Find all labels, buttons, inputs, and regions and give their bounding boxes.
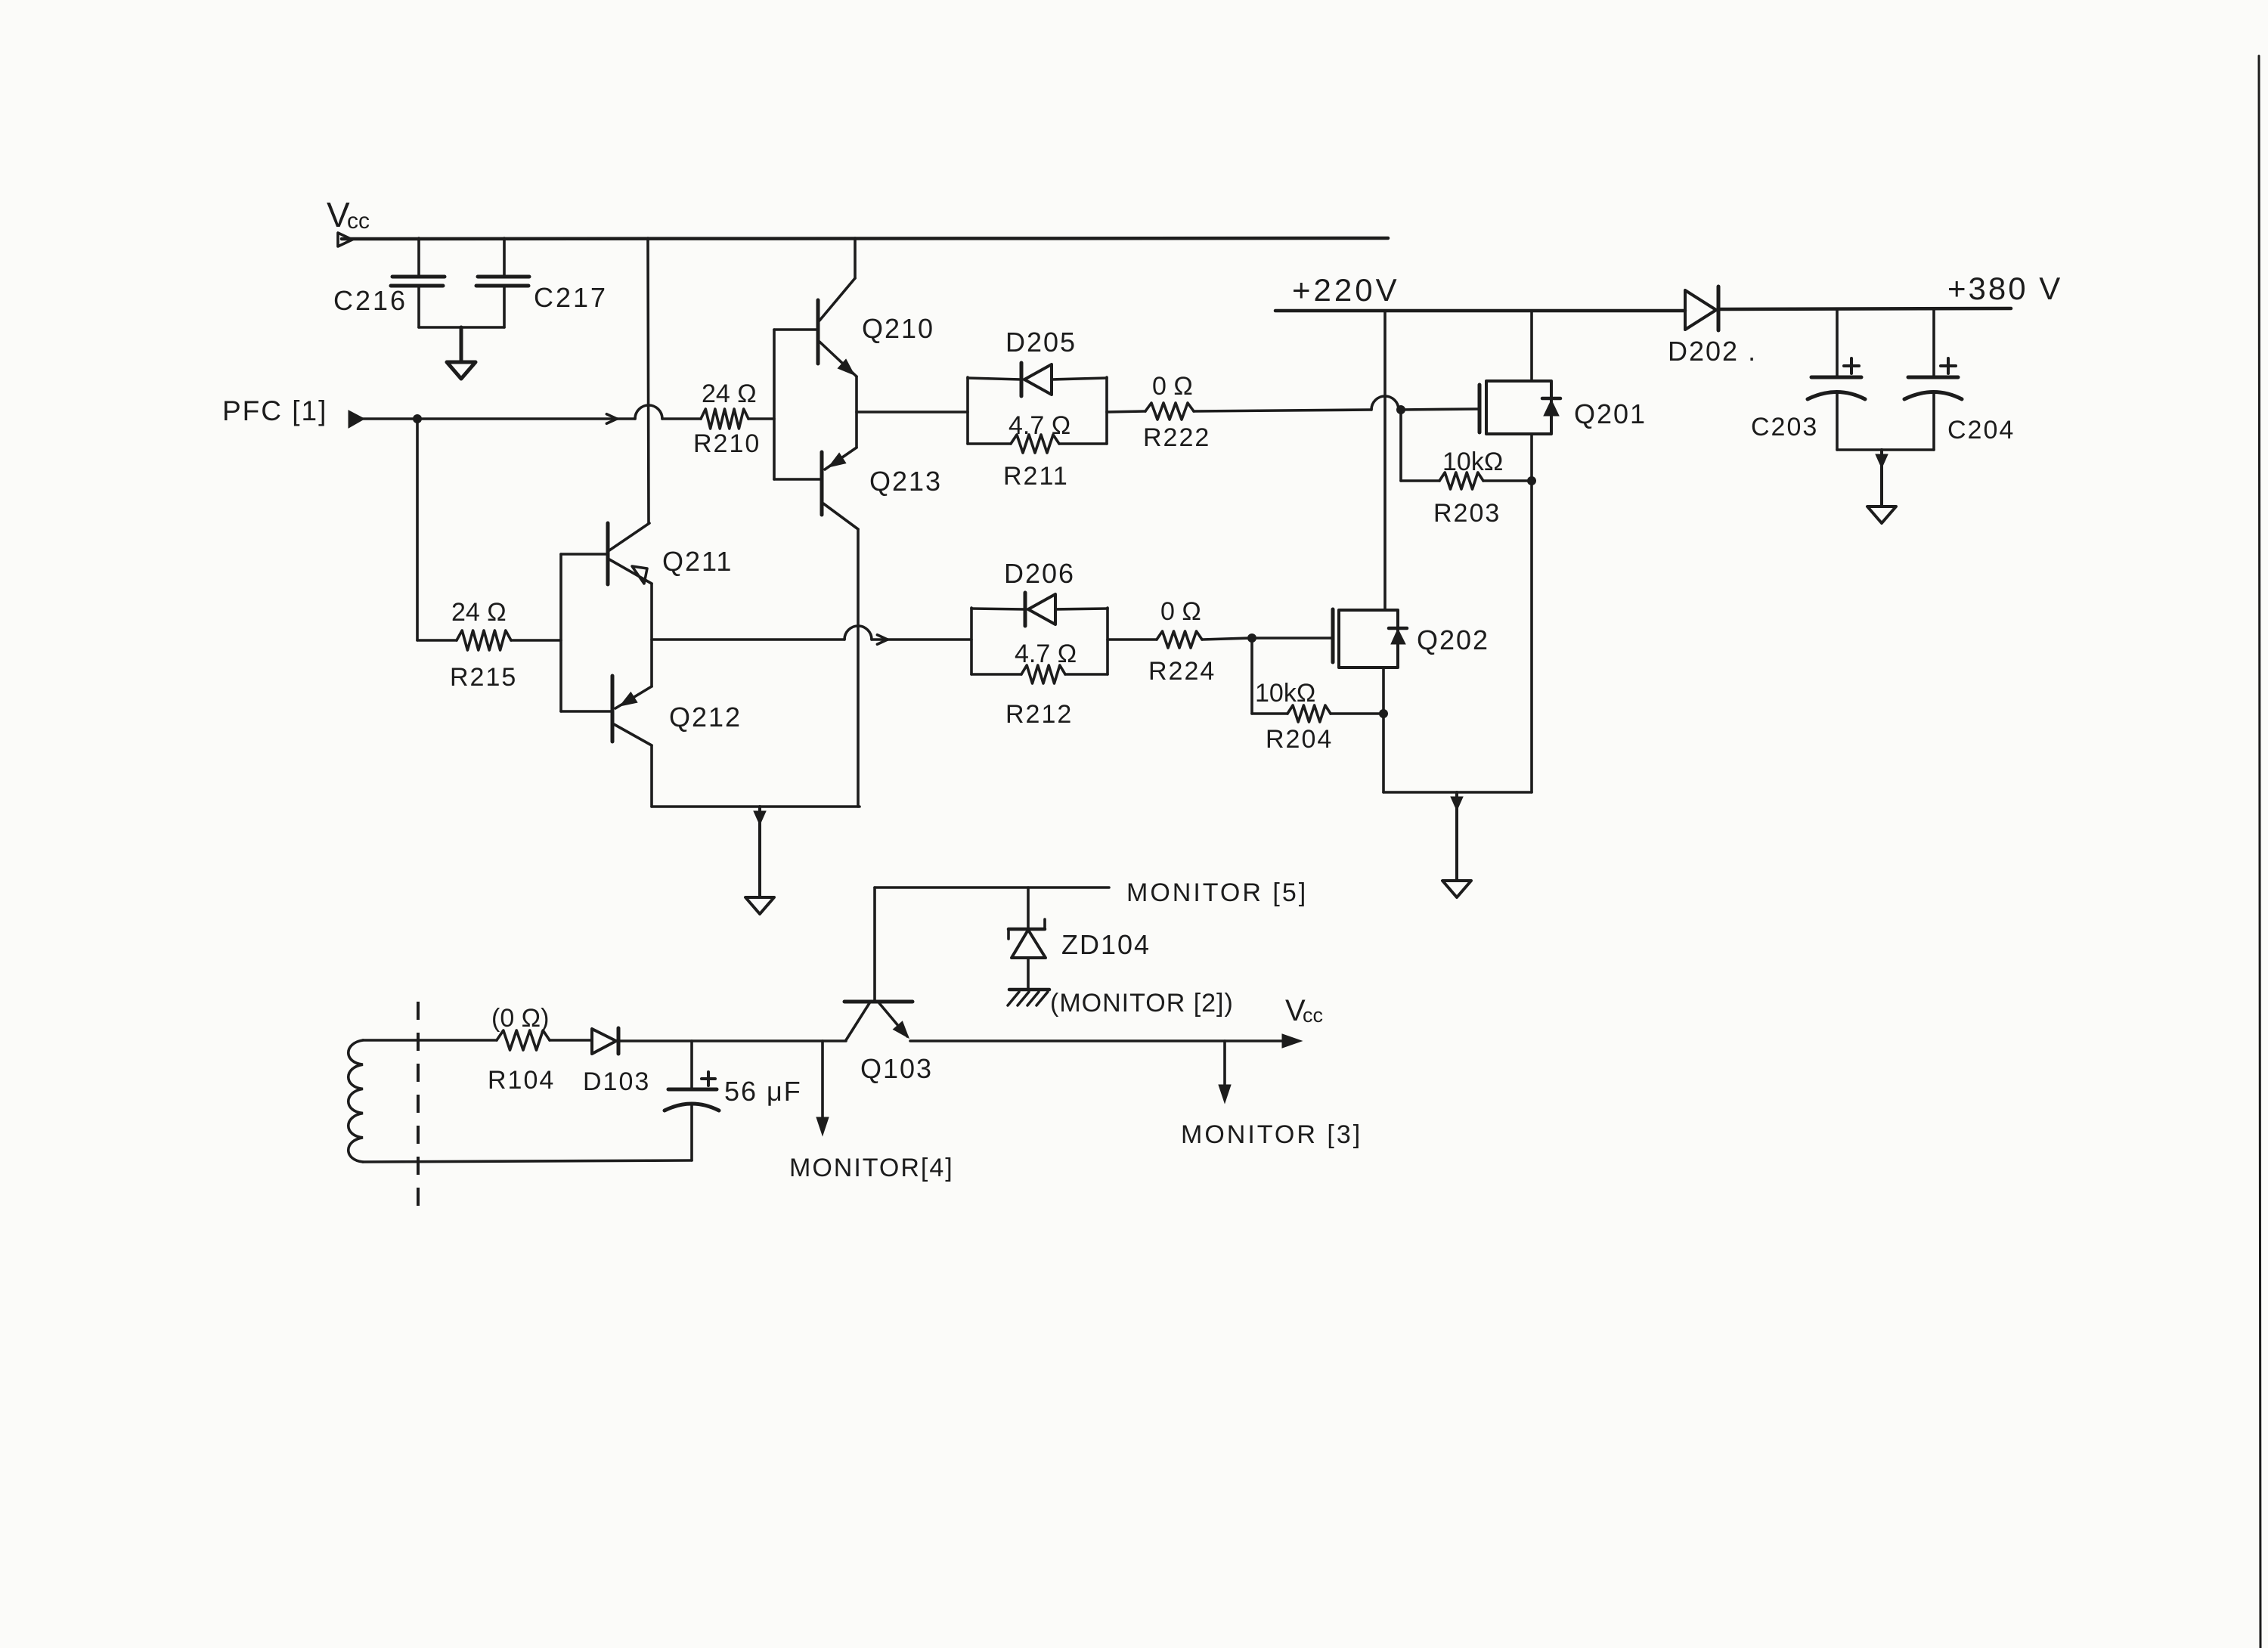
svg-text:Q103: Q103 xyxy=(860,1053,933,1084)
transistor Q103 xyxy=(844,1002,933,1084)
resistor R222 0 ohm xyxy=(1107,372,1371,452)
ground below driver stage xyxy=(758,807,761,897)
wire Vcc rail xyxy=(342,238,1388,239)
wire PFC[1] line to R210 xyxy=(355,405,701,423)
svg-text:ZD104: ZD104 xyxy=(1061,929,1151,960)
svg-text:MONITOR[4]: MONITOR[4] xyxy=(789,1154,954,1182)
svg-text:0 Ω: 0 Ω xyxy=(1152,372,1193,401)
svg-text:0 Ω: 0 Ω xyxy=(1160,597,1201,626)
svg-text:4.7 Ω: 4.7 Ω xyxy=(1015,640,1077,668)
wire Q201 drain to +220V rail xyxy=(1530,311,1533,381)
svg-text:(0 Ω): (0 Ω) xyxy=(491,1004,549,1033)
svg-text:24 Ω: 24 Ω xyxy=(702,379,757,408)
svg-text:R212: R212 xyxy=(1005,700,1073,729)
svg-text:4.7 Ω: 4.7 Ω xyxy=(1009,411,1070,440)
wire +380V rail xyxy=(1718,308,2011,309)
capacitor 56uF (polarized) xyxy=(665,1041,802,1160)
resistor R215 24 ohm xyxy=(417,598,561,692)
wire PFC junction down to R215 xyxy=(416,419,419,640)
ground below C203/C204 xyxy=(1880,450,1883,506)
wire D206/R212 box left edge xyxy=(970,608,973,674)
capacitor C204 (polarized) xyxy=(1904,309,2015,450)
svg-text:D206: D206 xyxy=(1004,558,1075,589)
wire to Q201 gate xyxy=(1399,409,1479,410)
svg-text:D205: D205 xyxy=(1005,327,1077,358)
transistor Q212 xyxy=(561,676,742,745)
wire MONITOR[3] branch xyxy=(1223,1041,1226,1089)
capacitor C203 (polarized) xyxy=(1751,309,1865,450)
svg-text:10kΩ: 10kΩ xyxy=(1442,448,1503,476)
svg-text:cc: cc xyxy=(1303,1004,1323,1027)
wire C216/C217 bottoms xyxy=(419,326,504,329)
svg-text:R104: R104 xyxy=(488,1066,555,1095)
wire Vcc output of Q103 xyxy=(910,1039,1285,1042)
wire MONITOR[4] branch xyxy=(821,1041,824,1120)
capacitor C217 xyxy=(476,238,608,327)
wire Q211 collector to Vcc rail xyxy=(648,238,649,523)
ground (hatched) below ZD104 / MONITOR[2] xyxy=(1008,990,1049,1005)
wire MOSFET ground rail xyxy=(1383,791,1532,794)
wire D103 to Q103 base xyxy=(618,1039,846,1042)
svg-text:D202 .: D202 . xyxy=(1668,336,1757,367)
scan edge line (right margin) xyxy=(2259,56,2260,1648)
MONITOR[3] arrowhead xyxy=(1219,1085,1231,1103)
resistor R210 24 ohm xyxy=(693,379,774,458)
svg-text:10kΩ: 10kΩ xyxy=(1255,679,1315,708)
svg-text:Q213: Q213 xyxy=(869,466,942,497)
wire Q213 collector down to ground rail xyxy=(857,529,860,807)
diode D103 xyxy=(583,1028,650,1096)
transformer winding xyxy=(349,1040,363,1162)
wire Q210/Q213 base bracket xyxy=(774,330,822,479)
wire to Q202 gate xyxy=(1252,637,1333,640)
svg-text:Q210: Q210 xyxy=(862,313,934,344)
svg-text:R210: R210 xyxy=(693,429,761,458)
wire C203/C204 bottoms xyxy=(1837,448,1934,451)
svg-text:24 Ω: 24 Ω xyxy=(451,598,507,627)
capacitor C216 xyxy=(333,238,445,327)
PFC input arrowhead xyxy=(349,410,364,428)
svg-text:R204: R204 xyxy=(1266,725,1333,754)
wire Q210/Q213 emitter junction xyxy=(855,376,858,448)
svg-text:R211: R211 xyxy=(1003,462,1069,491)
svg-text:+380 V: +380 V xyxy=(1947,271,2062,306)
svg-text:+220V: +220V xyxy=(1292,272,1400,308)
wire MONITOR[5] line xyxy=(875,886,1109,889)
wire D206/R212 box right edge xyxy=(1106,608,1109,674)
svg-text:cc: cc xyxy=(347,209,370,234)
wire D205/R211 box right edge xyxy=(1105,377,1108,444)
resistor R224 0 ohm xyxy=(1108,597,1250,686)
node gate junction Q201 xyxy=(1396,405,1405,414)
svg-text:C203: C203 xyxy=(1751,413,1818,441)
svg-text:C204: C204 xyxy=(1947,416,2015,445)
wire Q201 source down xyxy=(1530,434,1533,792)
node gate junction Q202 xyxy=(1247,633,1256,643)
resistor R204 10k xyxy=(1252,638,1388,754)
wire driver ground rail xyxy=(652,805,860,808)
resistor R104 0 ohm xyxy=(488,1004,555,1095)
diode D202 xyxy=(1668,287,1757,367)
wire Q202 source down xyxy=(1382,668,1385,792)
diode D206 (on box top edge) xyxy=(971,558,1108,626)
wire Q103 collector riser xyxy=(873,888,876,1000)
Vcc arrowhead xyxy=(1282,1034,1302,1048)
transistor Q211 xyxy=(561,523,733,584)
svg-text:D103: D103 xyxy=(583,1067,650,1096)
ground below C216/C217 xyxy=(460,327,463,362)
ground below Q202 source xyxy=(1455,792,1458,881)
transistor Q210 xyxy=(818,278,934,376)
transformer core dashed line xyxy=(417,1002,420,1218)
svg-text:(MONITOR [2]): (MONITOR [2]) xyxy=(1050,989,1234,1018)
Vcc rail input arrow xyxy=(338,233,352,246)
wire R104 to D103 xyxy=(550,1039,592,1042)
wire Q211/Q212 base link xyxy=(559,554,562,711)
svg-text:Q201: Q201 xyxy=(1574,398,1647,429)
resistor R211 4.7 ohm (on box bottom edge) xyxy=(968,411,1107,491)
svg-text:R224: R224 xyxy=(1148,657,1216,686)
wire winding bottom lead xyxy=(363,1160,692,1162)
wire Q212 collector down xyxy=(650,745,653,807)
MONITOR[4] arrowhead xyxy=(816,1117,829,1135)
svg-text:R222: R222 xyxy=(1143,423,1210,452)
zener diode ZD104 xyxy=(1009,888,1151,989)
svg-text:R203: R203 xyxy=(1433,499,1501,528)
wire +220V rail xyxy=(1275,309,1685,313)
wire Q210 collector to Vcc rail xyxy=(854,238,857,278)
wire winding top lead xyxy=(363,1039,497,1042)
wire D205/R211 box left edge xyxy=(966,377,969,444)
svg-text:PFC [1]: PFC [1] xyxy=(222,395,327,426)
wire emitter output to D206/R212 network xyxy=(652,626,971,644)
wire gate line hop over +220V drop xyxy=(1371,396,1399,410)
svg-text:Q211: Q211 xyxy=(662,546,733,577)
svg-text:Q202: Q202 xyxy=(1417,624,1489,655)
transistor Q202 MOSFET xyxy=(1333,609,1489,668)
svg-text:C217: C217 xyxy=(534,282,608,313)
resistor R203 10k xyxy=(1401,410,1536,528)
wire Q211/Q212 emitter junction xyxy=(650,584,653,686)
wire +220V drop to Q202 drain xyxy=(1383,311,1387,610)
svg-text:C216: C216 xyxy=(333,285,407,316)
svg-text:MONITOR [5]: MONITOR [5] xyxy=(1126,878,1308,907)
svg-text:R215: R215 xyxy=(450,663,517,692)
wire emitter output to D205/R211 network xyxy=(857,410,968,414)
svg-text:Q212: Q212 xyxy=(669,702,742,733)
transistor Q201 MOSFET xyxy=(1479,381,1647,434)
svg-text:56 μF: 56 μF xyxy=(724,1076,802,1107)
resistor R212 4.7 ohm (on box bottom edge) xyxy=(971,640,1108,729)
diode D205 (on box top edge) xyxy=(968,327,1107,396)
svg-text:MONITOR [3]: MONITOR [3] xyxy=(1181,1120,1362,1149)
transistor Q213 xyxy=(822,448,942,529)
